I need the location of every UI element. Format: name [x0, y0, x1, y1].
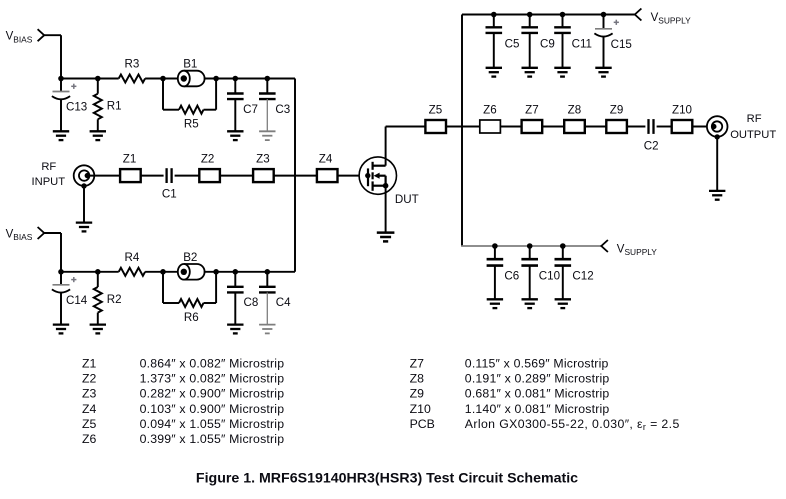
svg-text:C9: C9: [540, 37, 555, 50]
svg-text:Z9: Z9: [410, 387, 425, 401]
svg-text:0.191″ x 0.289″ Microstrip: 0.191″ x 0.289″ Microstrip: [465, 372, 610, 386]
svg-text:Z3: Z3: [82, 387, 97, 401]
svg-text:Z2: Z2: [201, 152, 215, 165]
svg-text:C8: C8: [243, 296, 258, 309]
svg-text:Z1: Z1: [82, 357, 97, 371]
svg-text:R2: R2: [107, 293, 122, 306]
svg-text:RF: RF: [41, 161, 56, 173]
svg-text:OUTPUT: OUTPUT: [730, 129, 776, 141]
svg-text:C13: C13: [66, 101, 87, 114]
svg-text:C11: C11: [572, 37, 592, 50]
svg-text:1.140″ x 0.081″ Microstrip: 1.140″ x 0.081″ Microstrip: [465, 402, 610, 416]
svg-text:Figure 1. MRF6S19140HR3(HSR3): Figure 1. MRF6S19140HR3(HSR3) Test Circu…: [196, 471, 578, 487]
svg-text:Z4: Z4: [82, 402, 97, 416]
svg-text:Z1: Z1: [123, 152, 137, 165]
svg-text:0.681″ x 0.081″ Microstrip: 0.681″ x 0.081″ Microstrip: [465, 387, 610, 401]
svg-text:C1: C1: [162, 187, 177, 200]
svg-text:Z6: Z6: [82, 432, 97, 446]
svg-text:Z8: Z8: [410, 372, 425, 386]
svg-text:C12: C12: [572, 270, 593, 283]
svg-text:B1: B1: [183, 57, 197, 70]
svg-text:INPUT: INPUT: [32, 176, 66, 188]
svg-text:C2: C2: [644, 139, 659, 152]
svg-text:Z10: Z10: [672, 103, 692, 116]
svg-text:Z4: Z4: [319, 152, 333, 165]
svg-text:PCB: PCB: [410, 417, 435, 431]
svg-text:0.115″ x 0.569″ Microstrip: 0.115″ x 0.569″ Microstrip: [465, 357, 609, 371]
svg-text:0.864″ x 0.082″ Microstrip: 0.864″ x 0.082″ Microstrip: [140, 357, 285, 371]
svg-text:Z5: Z5: [429, 103, 443, 116]
svg-text:R6: R6: [184, 311, 199, 324]
svg-text:C4: C4: [276, 296, 291, 309]
svg-text:C6: C6: [504, 270, 519, 283]
svg-text:C10: C10: [539, 270, 560, 283]
svg-text:R1: R1: [107, 100, 122, 113]
svg-text:R5: R5: [184, 118, 199, 131]
svg-text:Z8: Z8: [568, 103, 582, 116]
svg-text:Z7: Z7: [525, 103, 539, 116]
svg-text:0.399″ x 1.055″ Microstrip: 0.399″ x 1.055″ Microstrip: [140, 432, 285, 446]
svg-text:0.103″ x 0.900″ Microstrip: 0.103″ x 0.900″ Microstrip: [140, 402, 285, 416]
svg-text:Z6: Z6: [483, 103, 497, 116]
svg-text:C7: C7: [243, 103, 258, 116]
svg-text:Z3: Z3: [256, 152, 270, 165]
svg-text:Z9: Z9: [610, 103, 624, 116]
svg-text:C3: C3: [275, 103, 290, 116]
svg-text:Arlon GX0300-55-22, 0.030″, εr: Arlon GX0300-55-22, 0.030″, εr = 2.5: [465, 417, 680, 432]
svg-text:0.282″ x 0.900″ Microstrip: 0.282″ x 0.900″ Microstrip: [140, 387, 285, 401]
svg-text:R3: R3: [124, 57, 139, 70]
svg-text:1.373″ x 0.082″ Microstrip: 1.373″ x 0.082″ Microstrip: [140, 372, 285, 386]
svg-text:RF: RF: [747, 113, 762, 125]
svg-text:0.094″ x 1.055″ Microstrip: 0.094″ x 1.055″ Microstrip: [140, 417, 285, 431]
svg-text:R4: R4: [124, 251, 139, 264]
svg-text:Z5: Z5: [82, 417, 97, 431]
svg-text:DUT: DUT: [395, 193, 419, 206]
svg-text:C5: C5: [505, 37, 520, 50]
svg-text:Z10: Z10: [410, 402, 431, 416]
svg-text:C15: C15: [611, 38, 632, 51]
svg-text:Z7: Z7: [410, 357, 425, 371]
svg-text:B2: B2: [183, 251, 197, 264]
svg-text:Z2: Z2: [82, 372, 97, 386]
svg-text:C14: C14: [66, 294, 88, 307]
